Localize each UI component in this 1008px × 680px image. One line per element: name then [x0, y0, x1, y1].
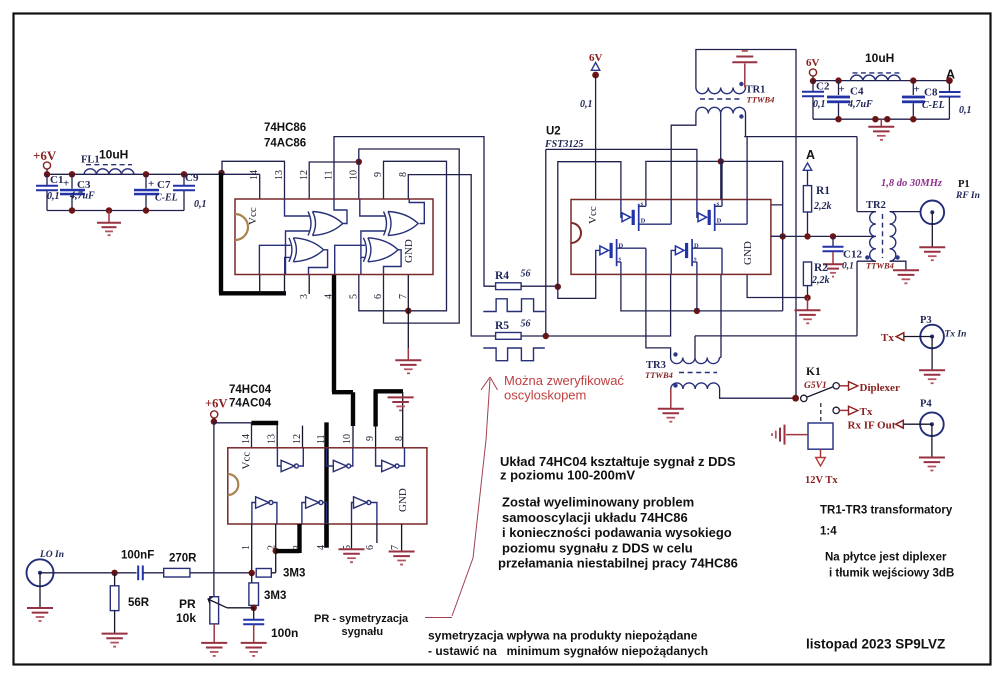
svg-text:Tx: Tx [881, 332, 894, 344]
inverter bot1 1-2 wires [252, 503, 277, 525]
junction R1 R2 [804, 233, 810, 239]
wire TR1 sec right end down to line and TR2 [744, 114, 857, 212]
svg-text:13: 13 [267, 434, 278, 444]
wire U2 pin3 to TR3 left [646, 274, 671, 357]
XOR gate TL [308, 212, 343, 236]
junction TR1 tap pin9 [718, 158, 724, 164]
svg-text:11: 11 [324, 170, 335, 180]
wire U2 pin5 stub [696, 274, 698, 311]
IC body 74HC04 [228, 448, 427, 524]
svg-text:i konieczności podawania wysok: i konieczności podawania wysokiego [502, 525, 732, 540]
inverter top1 13-12 wires [277, 448, 303, 466]
S rail below U2 [621, 274, 783, 311]
+6V terminal [211, 411, 218, 418]
svg-text:6V: 6V [806, 57, 820, 69]
wire TR2 secondary top to P1 [890, 211, 920, 213]
inverter top3 9-8 wires [376, 448, 405, 466]
svg-text:FL1: FL1 [81, 155, 100, 166]
junction ground stem [106, 207, 112, 213]
svg-text:Rx IF Out: Rx IF Out [848, 420, 896, 432]
PR wiper arrow [227, 607, 254, 609]
svg-text:C7: C7 [157, 179, 171, 191]
ground at thick corner [388, 396, 414, 398]
node C3 [69, 171, 75, 177]
svg-text:0,1: 0,1 [813, 99, 826, 110]
svg-text:Można zweryfikować: Można zweryfikować [504, 373, 624, 388]
XOR gate pins13,2-out11 internal wires [285, 199, 348, 274]
node S rail dot [780, 233, 786, 239]
IC body 74HC86 [235, 199, 433, 275]
Diplexer arrow [840, 385, 849, 387]
svg-text:Tx: Tx [860, 406, 873, 418]
TR3 secondary winding [671, 383, 720, 389]
svg-text:Vcc: Vcc [241, 452, 253, 470]
wire R4 node jog to U2 pin1 [558, 274, 596, 298]
bus switch TL: gate pin13 [621, 200, 622, 218]
capacitor C3 electrolytic [71, 174, 73, 188]
svg-text:6: 6 [373, 294, 384, 299]
svg-text:12: 12 [299, 170, 310, 180]
svg-text:C8: C8 [924, 87, 938, 99]
bottom rail [47, 210, 184, 212]
svg-text:R2: R2 [814, 262, 828, 274]
inverted ground above TR1 [744, 64, 746, 88]
node pin 7 junction [405, 308, 411, 314]
LO line [40, 572, 137, 574]
wire pin 7 to ground [407, 275, 409, 349]
svg-text:270R: 270R [169, 553, 197, 565]
svg-text:74HC04: 74HC04 [229, 384, 272, 396]
wire R2 bottom to node [807, 286, 809, 298]
wire pin 8 to R5 [408, 175, 495, 336]
wire R1 bottom [807, 212, 809, 236]
wire U2 pin12 pin9 net to right [646, 161, 783, 311]
svg-text:74AC04: 74AC04 [229, 398, 272, 410]
coil bottom arrow 12V Tx [820, 449, 822, 457]
svg-text:- ustawić na minimum sygnałó: - ustawić na minimum sygnałów niepożądan… [428, 644, 708, 658]
svg-text:3M3: 3M3 [283, 568, 305, 580]
svg-text:0,1: 0,1 [194, 199, 207, 210]
bus switch BR: gate pin4 [671, 250, 675, 274]
TR1 dashes [700, 98, 740, 100]
svg-text:G5V1: G5V1 [804, 381, 827, 391]
junction C3 bottom [69, 207, 75, 213]
svg-text:Diplexer: Diplexer [860, 382, 900, 394]
svg-text:oscyloskopem: oscyloskopem [504, 388, 586, 403]
top rail [813, 80, 949, 82]
svg-text:1,8 do 30MHz: 1,8 do 30MHz [881, 178, 943, 189]
svg-text:C1: C1 [50, 174, 63, 186]
svg-text:TTWB4: TTWB4 [866, 261, 894, 271]
svg-text:7: 7 [398, 294, 409, 299]
svg-text:GND: GND [397, 488, 409, 512]
XOR gate TR [384, 212, 419, 236]
svg-text:A: A [806, 148, 815, 162]
svg-text:C9: C9 [185, 172, 199, 184]
TR3 secondary right to K1 [720, 389, 796, 398]
svg-text:13: 13 [274, 170, 285, 180]
resistor R2 [803, 262, 811, 286]
svg-text:przełamania niestabilnej pracy: przełamania niestabilnej pracy 74HC86 [498, 556, 738, 571]
svg-text:R5: R5 [495, 320, 509, 332]
thick wire +6V to pins 1,2 [219, 173, 286, 293]
svg-text:P4: P4 [920, 399, 932, 410]
wire +6V rail [47, 169, 222, 174]
capacitor C9 [181, 171, 187, 177]
node C4 [835, 77, 841, 83]
node C7 [143, 171, 149, 177]
svg-text:symetryzacja wpływa na produkt: symetryzacja wpływa na produkty niepożąd… [428, 629, 698, 643]
svg-text:FST3125: FST3125 [544, 139, 583, 150]
relay common node [792, 395, 799, 402]
pin 5 stub to ground [351, 524, 353, 549]
wire TR1 top-left lead up and around to K1 vertical [696, 50, 796, 399]
TR3 center tap wire up to TR2 net [694, 336, 696, 358]
bus switch TR: gate pin10 [697, 200, 698, 218]
svg-text:+: + [148, 178, 154, 190]
inductor FL1 [84, 169, 134, 175]
svg-text:56: 56 [521, 269, 531, 280]
svg-text:samooscylacji układu 74HC86: samooscylacji układu 74HC86 [502, 510, 688, 525]
svg-text:+: + [839, 84, 845, 96]
svg-text:D: D [694, 243, 699, 250]
svg-text:+6V: +6V [33, 148, 57, 163]
XOR gate BL [289, 238, 324, 262]
svg-text:74AC86: 74AC86 [264, 138, 306, 150]
inverter top2 11-10 wires [327, 448, 353, 466]
svg-text:2,2k: 2,2k [811, 275, 830, 286]
svg-text:7: 7 [390, 545, 401, 550]
capacitor at A node [948, 81, 950, 92]
capacitor C1 [46, 174, 48, 185]
TR3 secondary left to ground [670, 389, 672, 408]
svg-text:0,1: 0,1 [842, 262, 854, 272]
node +6V feed to 74HC86 [218, 170, 224, 176]
svg-text:0,1: 0,1 [47, 191, 60, 202]
notch [235, 214, 248, 240]
square wave symbol 2 inverted [483, 348, 544, 361]
ground R2 [807, 298, 809, 310]
svg-text:Vcc: Vcc [587, 206, 599, 224]
svg-text:4,7uF: 4,7uF [69, 191, 95, 202]
wire 6V rail to U2 pin10 [546, 149, 697, 199]
pin 6 stub NC [376, 524, 378, 543]
svg-text:PR: PR [179, 597, 196, 611]
svg-text:D: D [641, 217, 646, 224]
svg-text:5: 5 [349, 294, 360, 299]
TR3 dashes [679, 372, 717, 374]
svg-text:14: 14 [249, 170, 260, 180]
svg-text:4: 4 [324, 294, 335, 299]
wire TR1 tap down to pin9 [721, 161, 722, 199]
ground [108, 211, 110, 223]
wire R4 node up to U2 pin13 [558, 162, 621, 287]
svg-text:poziomu sygnału z DDS w celu: poziomu sygnału z DDS w celu [502, 540, 693, 555]
rotated ground left of coil [786, 434, 808, 436]
capacitor C2 [812, 81, 814, 91]
junction C8 bottom [910, 116, 916, 122]
svg-text:10uH: 10uH [865, 51, 894, 65]
svg-text:Tx In: Tx In [945, 330, 967, 340]
wire R4 right to node [521, 285, 558, 287]
junction ground stem right filter [884, 116, 890, 122]
IC body U2 [571, 200, 771, 275]
svg-text:TTWB4: TTWB4 [645, 370, 673, 380]
wire R5 right [521, 274, 671, 336]
svg-text:GND: GND [742, 241, 754, 265]
svg-text:C-EL: C-EL [155, 193, 178, 204]
inverter top1 [281, 460, 294, 471]
bus switch BL: gate pin1 [596, 250, 600, 274]
capacitor 100n [253, 608, 255, 619]
resistor R4 [496, 283, 521, 290]
small ground C12 [823, 263, 843, 265]
XOR gate pins4,5-out6 internal wires [335, 245, 401, 274]
wire +6V to pin 14 [214, 423, 251, 448]
svg-text:8: 8 [398, 172, 409, 177]
svg-text:P1: P1 [958, 179, 970, 190]
TR3 primary winding [671, 358, 720, 364]
ground right filter [880, 119, 882, 126]
junction R5 net [543, 333, 549, 339]
bias rail [771, 235, 876, 237]
wire pin 12 to pin 10 node [309, 162, 359, 199]
wire A to R1 [807, 170, 809, 185]
svg-text:2,2k: 2,2k [813, 201, 832, 212]
svg-text:1:4: 1:4 [820, 526, 837, 538]
svg-text:56R: 56R [128, 597, 150, 609]
wire TR2 primary top lead [857, 211, 876, 213]
TR2 dashes vertical [882, 214, 884, 258]
XOR gate BR [363, 238, 398, 262]
wire 6V down to R5 node [545, 149, 547, 336]
svg-text:11: 11 [316, 434, 327, 444]
junction rail [872, 116, 878, 122]
svg-text:10: 10 [342, 434, 353, 444]
P3 ground [931, 337, 933, 370]
junction pin5 S rail [694, 308, 700, 314]
capacitor C7 electrolytic [145, 174, 147, 188]
capacitor C8 electrolytic [912, 81, 914, 95]
svg-text:+6V: +6V [205, 397, 227, 411]
inductor 10uH right [850, 75, 900, 81]
svg-text:listopad 2023 SP9LVZ: listopad 2023 SP9LVZ [806, 637, 945, 652]
pin 7 stub to ground [401, 524, 403, 551]
wire TR1 sec center tap down [720, 114, 722, 162]
wire pin 1 stub [259, 275, 261, 294]
svg-text:LO In: LO In [39, 550, 64, 560]
svg-text:sygnału: sygnału [342, 626, 384, 638]
ground pin7 [395, 359, 421, 361]
svg-text:0,1: 0,1 [959, 105, 972, 116]
wire pin8 up to ground corner [376, 392, 403, 448]
dashed link to coil [820, 403, 822, 422]
pin 4 thick stub [324, 524, 328, 548]
wire pin 9 to pin 5 loop [359, 161, 447, 310]
svg-text:10k: 10k [176, 611, 196, 625]
svg-text:3: 3 [299, 294, 310, 299]
resistor R1 [803, 186, 811, 212]
svg-text:C12: C12 [843, 249, 862, 261]
TR2 secondary winding [890, 212, 896, 262]
svg-text:U2: U2 [546, 126, 561, 138]
transformer TR1 secondary winding [696, 107, 746, 113]
thick pin 9 to ground corner [374, 391, 403, 426]
inverter top2 [333, 460, 346, 471]
wire U2 pin8 up to line [746, 137, 748, 200]
inverter bot2 [306, 497, 319, 508]
bottom rail right filter [813, 118, 949, 120]
wire to pin 13 [222, 161, 285, 199]
wire pin 2 stub [284, 275, 286, 294]
node pin1/3M3 [249, 570, 255, 576]
wire TR2 primary bottom lead to TR3 tap line [695, 261, 876, 336]
inverter bot3 [354, 497, 367, 508]
wire to pin 14 [222, 174, 260, 199]
svg-text:GND: GND [403, 239, 415, 263]
svg-text:Vcc: Vcc [247, 207, 259, 225]
XOR gate pins10,5-out8 internal wires [360, 199, 425, 274]
XOR gate pins1,2-out3 internal wires [259, 245, 327, 274]
svg-text:100n: 100n [271, 626, 298, 640]
relay coil box [808, 423, 833, 449]
inverter top3 [382, 460, 395, 471]
resistor 3M3 horizontal [256, 569, 271, 578]
svg-text:+: + [63, 178, 69, 190]
svg-text:56: 56 [521, 319, 531, 330]
svg-text:100nF: 100nF [121, 550, 154, 562]
thick from 74HC86 pin4 to pin 10 [352, 426, 354, 448]
wire pin 11 to R4 [334, 137, 496, 287]
svg-text:0,1: 0,1 [580, 99, 593, 110]
svg-text:9: 9 [373, 172, 384, 177]
square wave symbol 1 [483, 299, 545, 312]
red annotation arrow [452, 379, 490, 616]
resistor 56R [114, 573, 116, 586]
svg-text:1: 1 [241, 545, 252, 550]
svg-text:R1: R1 [816, 185, 830, 197]
PR bottom to ground [213, 624, 215, 642]
thick pin2 node to pin3 [276, 524, 300, 553]
second contact [833, 407, 839, 413]
svg-text:PR - symetryzacja: PR - symetryzacja [314, 613, 409, 625]
svg-text:3M3: 3M3 [264, 590, 286, 602]
pin 1 wire down to LO line [251, 524, 253, 573]
relay lever [807, 387, 834, 398]
svg-text:Na płytce jest diplexer: Na płytce jest diplexer [825, 552, 947, 564]
svg-text:10: 10 [349, 170, 360, 180]
svg-text:C2: C2 [816, 81, 830, 93]
notch U2 [571, 223, 581, 243]
svg-text:D: D [717, 217, 722, 224]
svg-text:C-EL: C-EL [922, 100, 945, 111]
svg-text:12V Tx: 12V Tx [805, 475, 838, 486]
svg-text:Został wyeliminowany problem: Został wyeliminowany problem [502, 495, 694, 510]
LO ground [39, 573, 41, 608]
ground TR2 sec [893, 269, 919, 271]
svg-text:R4: R4 [495, 270, 509, 282]
svg-text:12: 12 [292, 434, 303, 444]
transformer TR1 primary winding [696, 88, 746, 94]
resistor 3M3 vertical [251, 573, 253, 583]
svg-text:14: 14 [241, 434, 252, 444]
node C1 top [44, 171, 50, 177]
svg-text:74HC86: 74HC86 [264, 122, 306, 134]
inverter bot3 5-6 wires [352, 503, 377, 525]
capacitor C12 [832, 236, 834, 246]
wire 6V down to Vcc pin 14 [595, 75, 597, 200]
svg-text:8: 8 [394, 436, 405, 441]
junction C7 bottom [143, 207, 149, 213]
pin 12 stub NC [302, 426, 304, 448]
P1 ground [931, 212, 933, 246]
wire U2 right stubs [771, 205, 783, 237]
junction C4 bottom [835, 116, 841, 122]
TR2 primary winding [870, 212, 876, 262]
svg-text:K1: K1 [806, 366, 821, 378]
svg-text:6: 6 [365, 545, 376, 550]
svg-text:TTWB4: TTWB4 [747, 95, 775, 105]
wire pin 3 stub [308, 275, 310, 295]
svg-text:4,7uF: 4,7uF [847, 99, 873, 110]
wire TR2 secondary bottom to ground [890, 261, 906, 269]
wire U2 pin7 GND to R2 node [747, 274, 808, 297]
thick jumper pin14-pin13 [252, 421, 279, 425]
svg-text:D: D [619, 243, 624, 250]
wire +6V long vertical to PR top [213, 422, 215, 597]
svg-text:C4: C4 [850, 86, 864, 98]
notch [228, 474, 239, 495]
svg-text:TR1-TR3 transformatory: TR1-TR3 transformatory [820, 505, 953, 517]
svg-text:C3: C3 [77, 179, 91, 191]
inverter bot1 [256, 497, 269, 508]
svg-text:z poziomu 100-200mV: z poziomu 100-200mV [500, 468, 635, 483]
node C8 [910, 77, 916, 83]
pin 2 wire down to node [275, 524, 277, 551]
thick wire pin 4 to 74HC04 pin 10 [332, 275, 353, 427]
wire U2 pin6 to TR3 right [719, 274, 721, 357]
svg-text:9: 9 [365, 436, 376, 441]
P4 ground [931, 424, 933, 457]
junction C12 top [830, 233, 836, 239]
inverter bot2 3-4 wires [302, 503, 327, 525]
wire TR1 sec left end to U2 pin11 [671, 114, 696, 200]
wire pin 10 to pin 6 loop [359, 149, 459, 323]
resistor R5 [496, 333, 521, 340]
svg-text:10uH: 10uH [99, 148, 128, 162]
capacitor C4 electrolytic [838, 81, 840, 95]
svg-text:i tłumik wejściowy 3dB: i tłumik wejściowy 3dB [829, 568, 954, 580]
thick pin11 through-IC to pin4 [324, 422, 328, 547]
svg-text:RF In: RF In [955, 191, 980, 201]
svg-text:+: + [914, 84, 920, 96]
svg-text:TR2: TR2 [866, 200, 886, 211]
